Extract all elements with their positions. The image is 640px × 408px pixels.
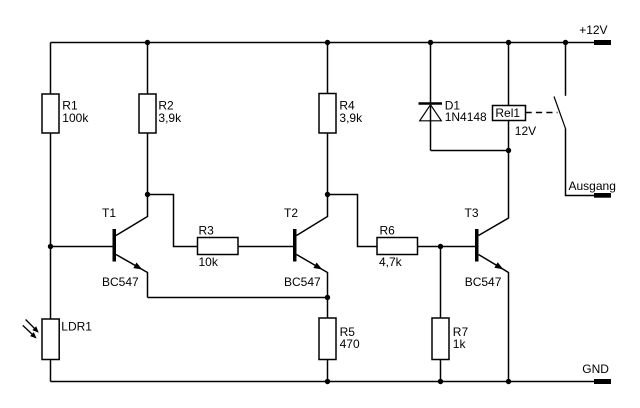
- wire R3 to T2 base: [238, 246, 293, 248]
- wire R7 top: [440, 247, 442, 319]
- wire LDR1 to GND rail: [50, 360, 52, 382]
- svg-text:470: 470: [340, 337, 360, 351]
- svg-text:T2: T2: [284, 206, 298, 220]
- wire T2 emitter to R5: [327, 298, 329, 319]
- node D1 top: [428, 40, 433, 45]
- photoresistor LDR1: [42, 319, 59, 360]
- svg-text:Rel1: Rel1: [495, 106, 520, 120]
- node T2 collector: [325, 192, 330, 197]
- svg-text:Ausgang: Ausgang: [569, 179, 616, 193]
- diode D1: [419, 98, 488, 150]
- resistor R3: [198, 238, 239, 255]
- svg-text:12V: 12V: [515, 124, 536, 138]
- wire R7 to GND rail: [440, 360, 442, 382]
- wire rail to R2: [147, 43, 149, 95]
- svg-text:T3: T3: [465, 206, 479, 220]
- relay coil Rel1: [493, 106, 537, 139]
- svg-text:+12V: +12V: [579, 23, 607, 37]
- svg-text:R3: R3: [199, 224, 215, 238]
- relay contact linkage (dashed): [526, 112, 558, 114]
- svg-text:4,7k: 4,7k: [379, 255, 403, 269]
- wire R6 to T3 base: [418, 246, 476, 248]
- svg-text:1N4148: 1N4148: [445, 110, 487, 124]
- wire left column top (rail to R1): [50, 43, 52, 95]
- wire R2 to T1 collector node: [147, 133, 149, 195]
- svg-text:3,9k: 3,9k: [339, 111, 363, 125]
- wire switch to Ausgang terminal: [566, 129, 595, 196]
- wire R4 to T2 collector node: [327, 133, 329, 195]
- resistor R6: [377, 238, 418, 255]
- svg-text:BC547: BC547: [465, 275, 502, 289]
- terminal GND: [594, 379, 611, 384]
- LDR1 light arrow 2: [23, 325, 37, 338]
- transistor T2: [284, 195, 328, 298]
- transistor T3: [465, 151, 509, 382]
- svg-text:3,9k: 3,9k: [158, 111, 182, 125]
- node R6 R7 T3 base junction: [438, 244, 443, 249]
- svg-text:R6: R6: [380, 224, 396, 238]
- relay contact blade: [554, 97, 566, 129]
- node R2 top: [145, 40, 150, 45]
- svg-text:BC547: BC547: [102, 275, 139, 289]
- wire rail to D1: [430, 43, 432, 104]
- node T2 emitter junction: [325, 295, 330, 300]
- svg-text:GND: GND: [582, 362, 609, 376]
- transistor T1: [102, 195, 148, 298]
- node Rel1 top: [506, 40, 511, 45]
- wire rail to switch: [565, 43, 567, 96]
- resistor R4: [319, 94, 336, 134]
- svg-text:T1: T1: [102, 206, 116, 220]
- terminal +12V: [594, 40, 611, 45]
- svg-text:100k: 100k: [62, 111, 89, 125]
- wire T1 collector to R3: [148, 195, 198, 247]
- node T1 collector: [145, 192, 150, 197]
- wire R1 to LDR1: [50, 133, 52, 319]
- resistor R7: [432, 318, 449, 360]
- wire rail to Rel1: [508, 43, 510, 106]
- wire Rel1 to node: [508, 121, 510, 151]
- node base tap T1: [48, 244, 53, 249]
- LDR1 light arrow 1: [26, 320, 39, 333]
- wire GND bottom rail: [51, 381, 595, 383]
- wire rail to R4: [327, 43, 329, 94]
- wire +12V top rail: [51, 42, 595, 44]
- node R5 bottom: [325, 379, 330, 384]
- resistor R5: [319, 318, 336, 360]
- svg-text:LDR1: LDR1: [61, 319, 92, 333]
- node relay bottom / T3 collector: [506, 148, 511, 153]
- svg-text:BC547: BC547: [284, 275, 321, 289]
- terminal Ausgang: [594, 193, 611, 198]
- resistor R1: [42, 94, 59, 133]
- wire R5 to GND rail: [327, 360, 329, 382]
- svg-text:1k: 1k: [453, 337, 467, 351]
- wire T1 emitter to T2 emitter: [148, 297, 328, 299]
- wire T1 base: [51, 246, 113, 248]
- node T3 emitter bottom: [506, 379, 511, 384]
- node R7 bottom: [438, 379, 443, 384]
- resistor R2: [139, 94, 156, 133]
- wire D1 to relay bottom node: [431, 150, 509, 152]
- node R4 top: [325, 40, 330, 45]
- svg-text:10k: 10k: [199, 255, 219, 269]
- node switch top: [563, 40, 568, 45]
- wire T2 collector to R6: [328, 195, 378, 247]
